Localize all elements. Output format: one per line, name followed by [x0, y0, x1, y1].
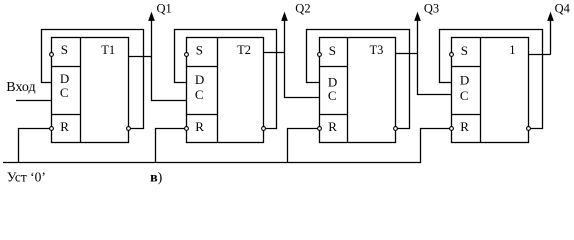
svg-text:Q1: Q1: [157, 2, 172, 16]
svg-text:D: D: [328, 74, 337, 89]
svg-text:C: C: [60, 85, 69, 100]
svg-text:S: S: [61, 42, 68, 57]
svg-text:D: D: [195, 72, 204, 87]
svg-text:R: R: [460, 119, 469, 134]
svg-text:S: S: [461, 43, 468, 58]
svg-text:S: S: [196, 43, 203, 58]
svg-text:C: C: [460, 88, 469, 103]
svg-text:C: C: [328, 88, 337, 103]
svg-text:T2: T2: [237, 43, 251, 57]
svg-text:T1: T1: [101, 43, 115, 57]
svg-text:R: R: [195, 119, 204, 134]
svg-text:C: C: [195, 87, 204, 102]
svg-text:Q3: Q3: [424, 2, 439, 16]
svg-text:D: D: [60, 71, 69, 86]
svg-text:R: R: [328, 119, 337, 134]
svg-text:D: D: [460, 73, 469, 88]
svg-text:Q4: Q4: [555, 2, 571, 16]
svg-text:Вход: Вход: [6, 80, 35, 95]
svg-text:R: R: [60, 119, 69, 134]
svg-text:в): в): [150, 171, 163, 186]
svg-text:Q2: Q2: [295, 2, 310, 16]
svg-text:Уст ‘0’: Уст ‘0’: [7, 170, 46, 185]
svg-text:1: 1: [509, 43, 515, 57]
svg-text:T3: T3: [370, 43, 384, 57]
svg-text:S: S: [329, 43, 336, 58]
